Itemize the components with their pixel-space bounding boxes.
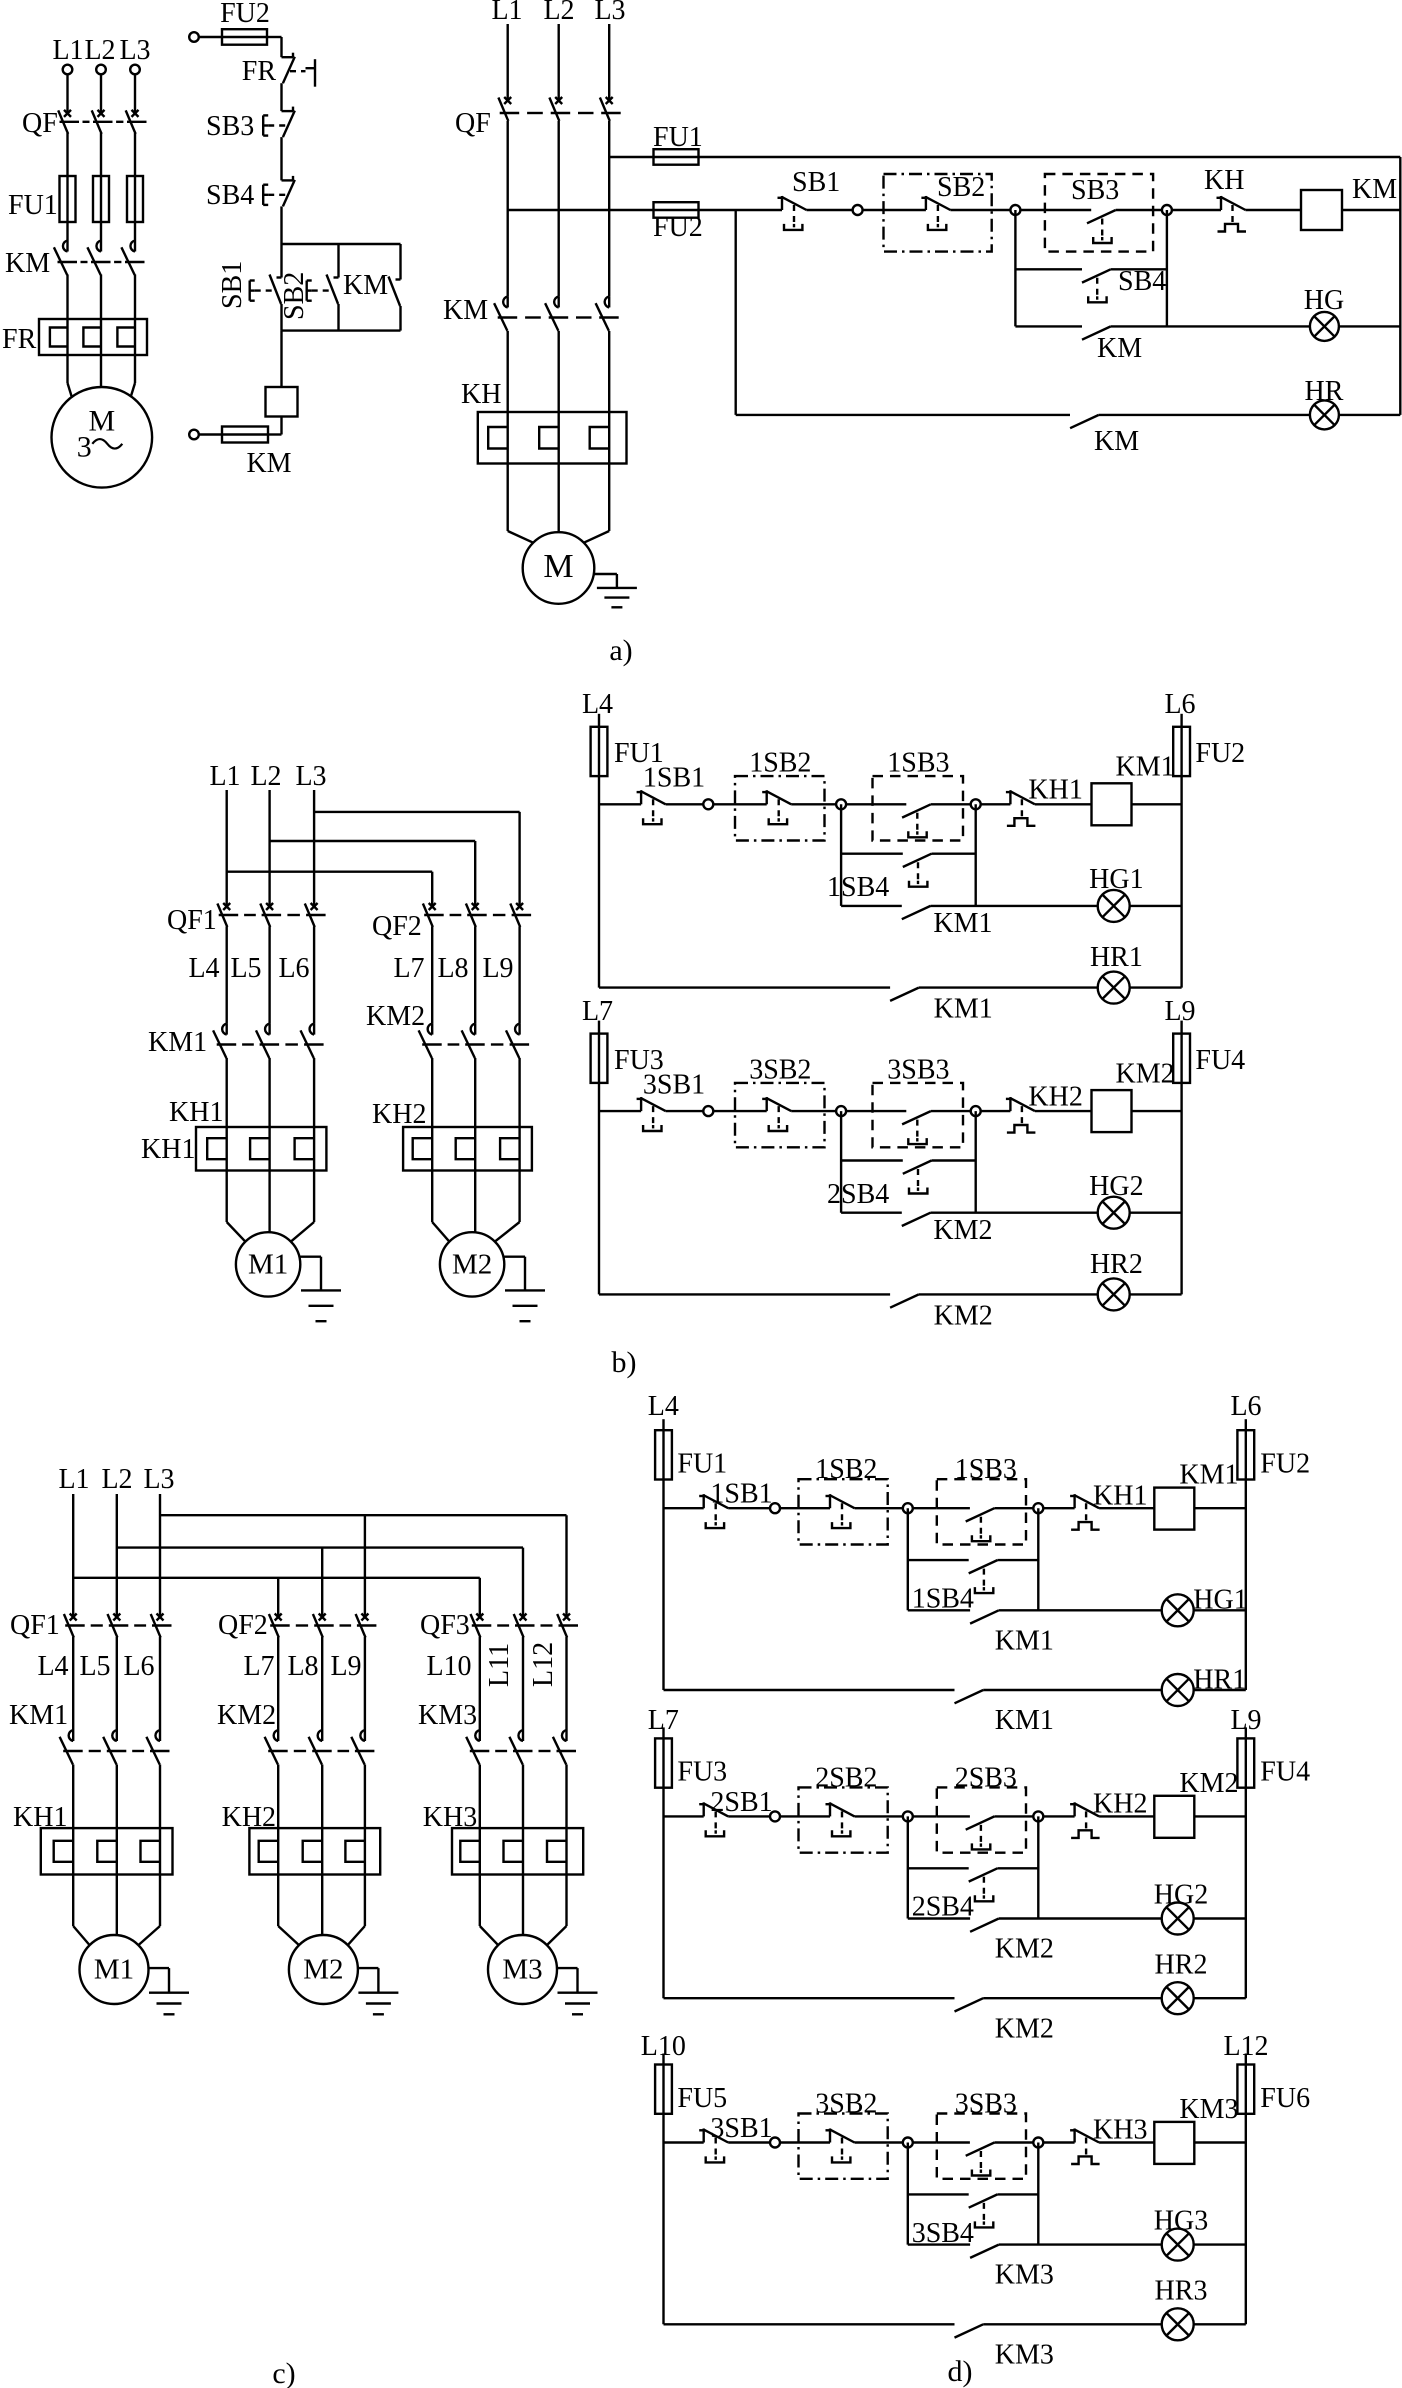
label KM3 bbox=[995, 2260, 1054, 2291]
contactor aux contact KM2 bbox=[970, 1919, 999, 1932]
svg-text:FU1: FU1 bbox=[8, 190, 58, 221]
thermal relay KH1 heater box bbox=[196, 1127, 326, 1171]
thermal contact KH2 bbox=[1070, 1802, 1100, 1838]
wire bbox=[479, 1578, 481, 1616]
label b) bbox=[612, 1346, 637, 1379]
svg-text:L8: L8 bbox=[287, 1651, 318, 1682]
wire bbox=[277, 1637, 279, 1730]
breaker QF3 pole 1 bbox=[471, 1614, 484, 1638]
wire bbox=[565, 1637, 567, 1730]
wire bbox=[1045, 209, 1091, 211]
coil KM2 bbox=[1092, 1090, 1132, 1132]
wire SB4 row bbox=[908, 2193, 969, 2195]
label L12 bbox=[1223, 2031, 1268, 2062]
label L8 bbox=[287, 1651, 318, 1682]
thermal relay KH3 heater box bbox=[452, 1828, 583, 1874]
label L7 bbox=[243, 1651, 274, 1682]
wire bbox=[100, 275, 102, 320]
svg-text:L6: L6 bbox=[123, 1651, 154, 1682]
label FU5 bbox=[677, 2083, 727, 2114]
label 3SB2 bbox=[815, 2088, 877, 2119]
wire bbox=[980, 803, 1010, 805]
wire bbox=[431, 1058, 433, 1127]
label KM2 bbox=[217, 1700, 276, 1731]
svg-text:KH3: KH3 bbox=[1093, 2115, 1147, 2146]
contactor aux contact KM1 bbox=[890, 988, 919, 1001]
wire left rail bbox=[598, 1083, 600, 1295]
wire bbox=[1180, 714, 1182, 727]
label QF bbox=[22, 108, 58, 139]
wire bbox=[134, 275, 136, 320]
node bbox=[770, 1811, 780, 1821]
wire bbox=[518, 927, 520, 1024]
label FU1 bbox=[8, 190, 58, 221]
label KM2 bbox=[366, 1001, 425, 1032]
wire SB4 row bbox=[841, 1159, 903, 1161]
wire bbox=[599, 1110, 641, 1112]
svg-text:KM: KM bbox=[1094, 426, 1139, 457]
svg-text:3SB2: 3SB2 bbox=[749, 1054, 811, 1085]
wire bbox=[950, 209, 1011, 211]
wire KM row bbox=[841, 905, 902, 907]
thermal relay KH heater box bbox=[478, 412, 627, 464]
svg-text:FU3: FU3 bbox=[677, 1757, 727, 1788]
wire bbox=[997, 1559, 1038, 1561]
contactor KM2 link bbox=[268, 1750, 374, 1752]
thermal relay KH2 heater box bbox=[249, 1828, 380, 1874]
label L6 bbox=[1164, 689, 1195, 720]
svg-text:1SB3: 1SB3 bbox=[955, 1454, 1017, 1485]
wire bbox=[907, 2143, 909, 2245]
label HR bbox=[1305, 376, 1344, 407]
svg-text:KM1: KM1 bbox=[9, 1700, 68, 1731]
contactor KM pole 2 bbox=[545, 296, 559, 331]
svg-text:L2: L2 bbox=[84, 35, 115, 66]
svg-text:L10: L10 bbox=[426, 1651, 471, 1682]
wire bbox=[1111, 268, 1167, 270]
fuse FU2 bbox=[654, 202, 699, 218]
svg-text:2SB2: 2SB2 bbox=[815, 1762, 877, 1793]
svg-text:L3: L3 bbox=[119, 35, 150, 66]
lamp HR3 bbox=[1162, 2308, 1194, 2340]
lamp HR2 bbox=[1162, 1982, 1194, 2014]
thermal relay KH1 heater box bbox=[41, 1828, 173, 1874]
svg-text:M2: M2 bbox=[303, 1954, 343, 1986]
box 3SB2 bbox=[735, 1083, 825, 1147]
pushbutton 1SB2 bbox=[762, 790, 791, 824]
svg-text:HR2: HR2 bbox=[1155, 1950, 1208, 1981]
wire bbox=[1130, 986, 1182, 988]
wire feed L3 bbox=[314, 811, 519, 813]
label KH1 bbox=[1028, 775, 1082, 806]
breaker QF2 pole 3 bbox=[510, 903, 523, 927]
wire bbox=[100, 222, 102, 241]
label FU2 bbox=[220, 0, 270, 29]
node bbox=[1010, 205, 1020, 215]
wire bbox=[919, 986, 1098, 988]
fuse FU2 bbox=[1173, 727, 1190, 776]
svg-text:KM: KM bbox=[343, 270, 388, 301]
wire bbox=[431, 927, 433, 1024]
wire bbox=[855, 1815, 904, 1817]
fuse FU1 pole 3 bbox=[127, 176, 143, 222]
label KM2 bbox=[933, 1215, 992, 1246]
svg-text:M: M bbox=[543, 548, 573, 585]
wire feed L1 bbox=[227, 871, 433, 873]
fuse FU1 pole 1 bbox=[60, 176, 76, 222]
contactor KM pole 1 bbox=[494, 296, 508, 331]
svg-text:QF3: QF3 bbox=[420, 1610, 470, 1641]
svg-text:SB3: SB3 bbox=[1071, 175, 1119, 206]
label KM bbox=[5, 248, 50, 279]
label L10 bbox=[426, 1651, 471, 1682]
contactor aux contact KM bbox=[1070, 415, 1099, 428]
fuse bbox=[222, 427, 268, 443]
terminal L2 bbox=[96, 65, 106, 75]
svg-text:2SB3: 2SB3 bbox=[955, 1762, 1017, 1793]
label L12 bbox=[528, 1642, 559, 1687]
wire bbox=[225, 790, 227, 906]
wire bbox=[268, 417, 282, 435]
svg-text:FU6: FU6 bbox=[1260, 2083, 1310, 2114]
pushbutton SB2 bbox=[921, 196, 950, 230]
wire bbox=[480, 1875, 567, 1946]
svg-text:QF: QF bbox=[455, 108, 491, 139]
label L6 bbox=[278, 953, 309, 984]
svg-text:1SB2: 1SB2 bbox=[749, 748, 811, 779]
svg-text:KH2: KH2 bbox=[1093, 1789, 1147, 1820]
node bbox=[903, 1811, 913, 1821]
thermal relay KH2 heater box bbox=[403, 1127, 532, 1171]
label KM2 bbox=[934, 1300, 993, 1331]
box 3SB3 bbox=[873, 1083, 964, 1147]
wire bbox=[399, 244, 401, 280]
svg-text:KM3: KM3 bbox=[1179, 2094, 1238, 2125]
contactor KM link bbox=[58, 261, 145, 263]
ground bbox=[504, 1257, 545, 1322]
contactor KM pole 2 bbox=[87, 241, 101, 276]
node bbox=[1162, 205, 1172, 215]
wire bbox=[799, 2141, 831, 2143]
wire bbox=[1099, 1815, 1154, 1817]
label KM3 bbox=[995, 2339, 1054, 2370]
wire bbox=[225, 1058, 227, 1127]
wire bbox=[1037, 1508, 1039, 1610]
wire bbox=[100, 133, 102, 176]
wire bbox=[1245, 2054, 1247, 2065]
svg-text:FR: FR bbox=[2, 324, 37, 355]
svg-text:KM: KM bbox=[1352, 174, 1397, 205]
lamp HG1 bbox=[1162, 1594, 1194, 1626]
wire bbox=[931, 803, 972, 805]
wire bbox=[134, 74, 136, 112]
label KM bbox=[343, 270, 388, 301]
wire bbox=[1339, 325, 1400, 327]
label 1SB3 bbox=[887, 748, 949, 779]
label L5 bbox=[230, 953, 261, 984]
label L9 bbox=[1164, 996, 1195, 1027]
label KH2 bbox=[1028, 1081, 1082, 1112]
wire bbox=[313, 927, 315, 1024]
label KM1 bbox=[995, 1625, 1054, 1656]
breaker QF1 pole 3 bbox=[305, 903, 318, 927]
terminal L3 bbox=[130, 65, 140, 75]
svg-text:KM1: KM1 bbox=[995, 1705, 1054, 1736]
node bbox=[703, 799, 713, 809]
wire bbox=[565, 1765, 567, 1829]
wire bbox=[937, 1815, 970, 1817]
wire KM row bbox=[841, 1211, 902, 1213]
wire bbox=[983, 1689, 1162, 1691]
label L11 bbox=[484, 1643, 515, 1687]
svg-text:L3: L3 bbox=[143, 1464, 174, 1495]
wire bbox=[66, 74, 68, 112]
contactor KM pole 3 bbox=[596, 296, 610, 331]
wire bbox=[73, 1875, 160, 1946]
wire bbox=[337, 244, 339, 278]
wire bbox=[1339, 414, 1400, 416]
pushbutton 3SB1 bbox=[699, 2129, 728, 2163]
contactor KM1 pole 3 bbox=[301, 1024, 315, 1059]
svg-text:KM: KM bbox=[443, 295, 488, 326]
box 2SB3 bbox=[937, 1787, 1026, 1852]
label 2SB3 bbox=[955, 1762, 1017, 1793]
label 3SB3 bbox=[887, 1054, 949, 1085]
node bbox=[903, 1503, 913, 1513]
wire bbox=[159, 1494, 161, 1616]
wire right rail bbox=[1245, 2114, 1247, 2325]
wire left rail bbox=[662, 2114, 664, 2325]
svg-text:FU2: FU2 bbox=[1260, 1449, 1310, 1480]
svg-text:SB2: SB2 bbox=[937, 172, 985, 203]
lamp HR1 bbox=[1162, 1674, 1194, 1706]
wire bbox=[72, 1637, 74, 1730]
lamp HR bbox=[1310, 400, 1339, 429]
wire KM row bbox=[908, 2243, 970, 2245]
wire HR row bbox=[736, 414, 1070, 416]
label QF3 bbox=[420, 1610, 470, 1641]
svg-text:M1: M1 bbox=[94, 1954, 134, 1986]
wire bbox=[280, 206, 282, 244]
breaker QF1 pole 1 bbox=[64, 1614, 77, 1638]
svg-text:L9: L9 bbox=[482, 953, 513, 984]
pushbutton 2SB1 bbox=[699, 1802, 728, 1836]
terminal L1 bbox=[63, 65, 73, 75]
wire bbox=[799, 1815, 831, 1817]
wire bbox=[1099, 414, 1310, 416]
wire L11 rail bbox=[699, 156, 1401, 158]
motor M1 bbox=[80, 1935, 149, 2004]
wire bbox=[846, 803, 873, 805]
svg-text:KH: KH bbox=[1204, 165, 1244, 196]
label L3 bbox=[119, 35, 150, 66]
label SB1 bbox=[792, 167, 840, 198]
label L3 bbox=[295, 761, 326, 792]
label QF2 bbox=[218, 1610, 268, 1641]
label L6 bbox=[1230, 1391, 1261, 1422]
label L6 bbox=[123, 1651, 154, 1682]
svg-text:L7: L7 bbox=[582, 996, 613, 1027]
wire bbox=[558, 331, 560, 412]
pushbutton 2SB4 bbox=[903, 1161, 932, 1194]
wire bbox=[699, 209, 783, 211]
label FU6 bbox=[1260, 2083, 1310, 2114]
svg-text:SB4: SB4 bbox=[1118, 266, 1166, 297]
contactor aux contact KM1 bbox=[955, 1690, 984, 1703]
label L3 bbox=[143, 1464, 174, 1495]
wire bbox=[518, 1058, 520, 1127]
wire bbox=[931, 1211, 1098, 1213]
breaker QF2 pole 1 bbox=[423, 903, 436, 927]
label SB4 bbox=[1118, 266, 1166, 297]
label QF2 bbox=[372, 911, 422, 942]
label L10 bbox=[641, 2031, 686, 2062]
node bbox=[1033, 2138, 1043, 2148]
wire bbox=[508, 209, 654, 211]
label FU2 bbox=[1260, 1449, 1310, 1480]
terminal bbox=[189, 430, 199, 440]
wire SB4 row bbox=[908, 1559, 969, 1561]
label L4 bbox=[188, 953, 219, 984]
svg-text:KM2: KM2 bbox=[1116, 1058, 1175, 1089]
wire bbox=[432, 1171, 519, 1242]
svg-text:L4: L4 bbox=[582, 689, 613, 720]
thermal contact FR bbox=[282, 53, 316, 87]
svg-text:L1: L1 bbox=[52, 35, 83, 66]
wire right rail bbox=[1399, 157, 1401, 415]
label KM bbox=[1094, 426, 1139, 457]
svg-text:L4: L4 bbox=[648, 1391, 679, 1422]
svg-text:FU2: FU2 bbox=[220, 0, 270, 29]
lamp HG3 bbox=[1162, 2229, 1194, 2261]
breaker QF3 pole 2 bbox=[514, 1614, 527, 1638]
label KM3 bbox=[1179, 2094, 1238, 2125]
label KM bbox=[443, 295, 488, 326]
thermal contact KH3 bbox=[1070, 2129, 1100, 2165]
contactor KM link bbox=[498, 316, 619, 318]
node bbox=[770, 2138, 780, 2148]
wire bbox=[666, 1110, 704, 1112]
label HG3 bbox=[1154, 2206, 1208, 2237]
svg-text:KH1: KH1 bbox=[1028, 775, 1082, 806]
svg-text:L1: L1 bbox=[58, 1464, 89, 1495]
svg-text:M2: M2 bbox=[452, 1248, 492, 1280]
svg-text:KM1: KM1 bbox=[995, 1625, 1054, 1656]
label L1 bbox=[209, 761, 240, 792]
wire block bottom rail bbox=[282, 329, 401, 331]
svg-text:KM2: KM2 bbox=[934, 1300, 993, 1331]
wire bbox=[662, 2054, 664, 2065]
wire bbox=[664, 2141, 704, 2143]
pushbutton 3SB2 bbox=[762, 1097, 791, 1131]
wire SB4 row bbox=[1015, 268, 1082, 270]
fuse FU5 bbox=[655, 2065, 672, 2114]
pushbutton 1SB4 bbox=[903, 854, 932, 887]
label FU1 bbox=[614, 738, 664, 769]
svg-text:L5: L5 bbox=[230, 953, 261, 984]
svg-text:KH2: KH2 bbox=[1028, 1081, 1082, 1112]
wire bbox=[199, 36, 222, 38]
label HR1 bbox=[1193, 1664, 1246, 1695]
wire right rail bbox=[1180, 776, 1182, 988]
contactor KM2 pole 3 bbox=[351, 1730, 365, 1765]
wire left rail bbox=[662, 1788, 664, 1999]
label L5 bbox=[79, 1651, 110, 1682]
wire SB4 row bbox=[908, 1867, 969, 1869]
wire feed L2 bbox=[270, 840, 476, 842]
wire bbox=[779, 1507, 798, 1509]
breaker QF pole 1 bbox=[498, 97, 511, 121]
svg-text:HR3: HR3 bbox=[1155, 2276, 1208, 2307]
breaker QF2 link bbox=[424, 914, 531, 916]
label SB3 bbox=[1071, 175, 1119, 206]
wire bbox=[912, 2141, 937, 2143]
svg-text:KM: KM bbox=[246, 448, 291, 479]
wire bbox=[280, 304, 282, 331]
wire bbox=[846, 1110, 873, 1112]
lamp HG2 bbox=[1162, 1903, 1194, 1935]
label L9 bbox=[482, 953, 513, 984]
wire bbox=[1171, 209, 1221, 211]
svg-text:QF2: QF2 bbox=[218, 1610, 268, 1641]
wire bbox=[507, 121, 509, 296]
wire bbox=[474, 927, 476, 1024]
breaker QF1 pole 2 bbox=[108, 1614, 121, 1638]
wire left rail bbox=[598, 776, 600, 988]
label FU2 bbox=[653, 212, 703, 243]
svg-text:FU2: FU2 bbox=[1195, 738, 1245, 769]
svg-text:L11: L11 bbox=[484, 1643, 515, 1687]
motor M2 bbox=[289, 1935, 358, 2004]
svg-text:L6: L6 bbox=[278, 953, 309, 984]
label KM bbox=[246, 448, 291, 479]
label KM2 bbox=[1179, 1768, 1238, 1799]
breaker QF3 link bbox=[472, 1624, 578, 1626]
svg-text:L2: L2 bbox=[250, 761, 281, 792]
label a) bbox=[609, 634, 632, 667]
contactor KM1 pole 1 bbox=[60, 1730, 74, 1765]
svg-text:KM2: KM2 bbox=[933, 1215, 992, 1246]
label KM2 bbox=[995, 2013, 1054, 2044]
coil KM bbox=[266, 387, 298, 417]
label FU4 bbox=[1195, 1045, 1245, 1076]
wire bbox=[975, 804, 977, 906]
contactor KM2 pole 1 bbox=[419, 1024, 433, 1059]
breaker QF pole 3 bbox=[600, 97, 613, 121]
label L7 bbox=[648, 1705, 679, 1736]
wire block top rail bbox=[282, 243, 401, 245]
label SB4 bbox=[206, 180, 254, 211]
wire bbox=[994, 1815, 1034, 1817]
contactor KM1 pole 1 bbox=[213, 1024, 227, 1059]
label L4 bbox=[37, 1651, 68, 1682]
wire bbox=[1193, 1917, 1246, 1919]
label L9 bbox=[330, 1651, 361, 1682]
contactor aux contact KM bbox=[1082, 326, 1111, 339]
node bbox=[1033, 1503, 1043, 1513]
svg-text:KM2: KM2 bbox=[1179, 1768, 1238, 1799]
coil KM bbox=[1301, 190, 1342, 230]
wire bbox=[364, 1637, 366, 1730]
label 1SB4 bbox=[827, 872, 889, 903]
wire bbox=[735, 803, 767, 805]
label L7 bbox=[582, 996, 613, 1027]
wire bbox=[522, 1637, 524, 1730]
svg-text:L7: L7 bbox=[393, 953, 424, 984]
wire KM row bbox=[908, 1917, 970, 1919]
wire bbox=[280, 83, 282, 111]
svg-text:L3: L3 bbox=[594, 0, 625, 26]
